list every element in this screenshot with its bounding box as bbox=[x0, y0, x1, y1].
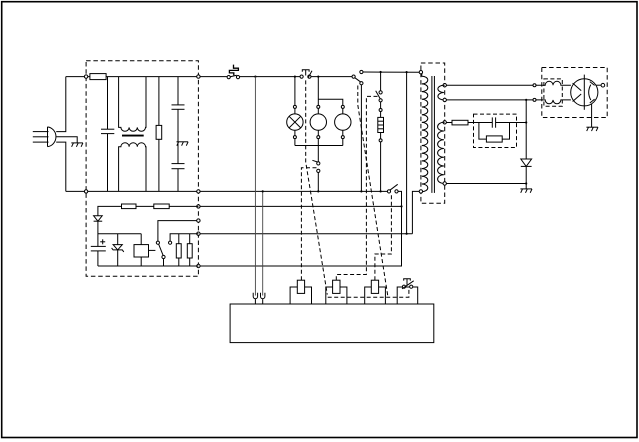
ground G1 (mains earth) bbox=[71, 143, 83, 147]
diode D1 (HV rectifier) bbox=[521, 159, 532, 189]
capacitor CX1 (X-cap) bbox=[101, 77, 114, 192]
wire: board feed B (from bottom rail) bbox=[262, 191, 264, 295]
PSU interior mid line bbox=[98, 233, 141, 235]
node: filament terminal lower bbox=[533, 98, 536, 101]
wire: plug top prong to top rail bbox=[56, 77, 66, 132]
capacitor CY1 (Y-cap upper) bbox=[172, 77, 185, 110]
inductor L2 (filament choke upper) bbox=[536, 81, 571, 85]
heater EH1 (grill element) bbox=[378, 102, 384, 191]
wire: HV return line bbox=[446, 183, 526, 185]
node: V1/B1 junction bbox=[400, 205, 402, 207]
diode D3 (zener) bbox=[112, 234, 124, 266]
inductor L3 (filament choke lower) bbox=[536, 100, 571, 104]
switch S2 (monitor switch with T actuator) bbox=[300, 70, 312, 79]
transformer T1 HV winding bbox=[438, 121, 447, 186]
wire: bottom rail (neutral) bbox=[66, 190, 389, 192]
wire: K1 NO to transformer primary (y=72 feed) bbox=[363, 71, 420, 73]
dashed link: door bar runner to S5 bbox=[328, 289, 409, 297]
wire: magnetron ground lead bbox=[591, 104, 593, 127]
wire: top rail through EMI box bbox=[106, 76, 229, 78]
resistor R2 (HV series) bbox=[446, 120, 492, 125]
wire: K1 NC branch to bottom rail bbox=[360, 85, 362, 192]
transformer T1 dashed enclosure bbox=[421, 63, 445, 203]
relay RY2 (on board) bbox=[326, 280, 347, 304]
ground G2 (Y-cap midpoint) bbox=[177, 142, 189, 146]
wire B1: bus to PSU top bbox=[198, 205, 401, 207]
PSU top feed line bbox=[98, 206, 198, 215]
wire: HV node down to diode bbox=[525, 100, 527, 159]
node: PSU edge B3 bbox=[197, 264, 200, 267]
wire: filament line upper bbox=[446, 84, 533, 86]
dashed link: RY1 to S3 bbox=[301, 168, 316, 280]
node: cap wire to HV node bbox=[525, 121, 527, 123]
node: V2/B2 junction bbox=[406, 233, 408, 235]
node: lamp tap bbox=[294, 76, 296, 78]
transformer T1 filament winding bbox=[438, 84, 446, 102]
wire B2: bus to PSU bbox=[198, 233, 412, 235]
wire V3: transformer primary bottom to bus B2 bbox=[412, 191, 419, 233]
dashed link: RY3 to relay contact K2 bbox=[375, 195, 392, 281]
choke dashed box bbox=[544, 79, 562, 106]
wire: plug earth prong bbox=[56, 137, 77, 143]
relay contact K2 (on bottom rail) bbox=[387, 184, 398, 193]
lamp E1 (oven lamp) bbox=[287, 77, 303, 146]
wire: top rail S1 to S2 bbox=[240, 76, 300, 78]
wire: filament line lower bbox=[446, 99, 533, 101]
capacitor C3 (electrolytic, +) bbox=[91, 239, 106, 266]
relay RY1 (on board) bbox=[290, 280, 311, 304]
wire: lamp/motor common bbox=[295, 145, 343, 147]
resistor R3 (bleeder, parallel with C2) bbox=[479, 123, 510, 143]
switch S3 (lamp/motor door switch) bbox=[312, 146, 320, 192]
node: feed B at bottom rail bbox=[262, 190, 264, 192]
node: heater to bottom rail bbox=[380, 190, 382, 192]
connector hook 1 bbox=[253, 293, 257, 304]
magnetron V1 bbox=[571, 75, 605, 110]
motor M2 (turntable motor) bbox=[318, 99, 351, 145]
dashed link: RY2 to heater switch S4 bbox=[336, 96, 378, 280]
node: filament terminal upper bbox=[533, 84, 536, 87]
node: motor tap bbox=[317, 76, 319, 78]
relay coil K3 bbox=[134, 234, 155, 266]
node: rail exits box bbox=[197, 75, 200, 78]
node: heater tap on feed bbox=[380, 71, 382, 73]
control board PCB bbox=[230, 304, 434, 343]
node: V2 tap on feed bbox=[406, 71, 408, 73]
resistor R5 (dropper) bbox=[154, 204, 169, 209]
node: diode/return junction bbox=[525, 182, 527, 184]
connector hook 2 bbox=[261, 293, 265, 304]
transformer T1 primary winding bbox=[419, 71, 428, 194]
node: bottom rail at box right bbox=[197, 190, 200, 193]
ground G3 (magnetron) bbox=[586, 127, 598, 131]
capacitor CY2 (Y-cap lower) bbox=[172, 109, 185, 191]
ground G4 (HV diode) bbox=[520, 189, 532, 193]
relay switch K1 (SPDT power relay) bbox=[352, 70, 363, 84]
resistor R7 bbox=[187, 234, 192, 266]
switch S5 (monitor switch on board, T actuator) bbox=[397, 279, 418, 304]
capacitor C2 (HV capacitor) bbox=[492, 117, 526, 127]
HV capacitor dashed enclosure bbox=[474, 114, 517, 147]
relay contact K3a bbox=[156, 221, 198, 266]
motor M1 (fan motor) bbox=[310, 77, 326, 146]
node: PSU edge relay common bbox=[197, 219, 200, 222]
mains plug P1 bbox=[33, 127, 56, 147]
node: bottom rail at box left bbox=[84, 190, 87, 193]
transformer T1 core bbox=[432, 76, 435, 193]
PSU bottom line bbox=[98, 265, 198, 267]
dashed link: K1 to RY3 area (diagonal) bbox=[358, 86, 388, 298]
wire V2: feed line down to bus B2 bbox=[406, 72, 408, 234]
node: NC at bottom rail bbox=[360, 190, 362, 192]
node: board feed tap bbox=[254, 76, 256, 78]
resistor R1 (in EMI filter) bbox=[156, 77, 162, 192]
node: rail enters box bbox=[84, 75, 87, 78]
node: S3 to bottom rail bbox=[317, 190, 319, 192]
EMI filter / control PSU dashed enclosure bbox=[86, 61, 198, 276]
node: HV cap junction on filament line bbox=[525, 99, 527, 101]
resistor R4 (dropper) bbox=[122, 204, 137, 209]
magnetron dashed enclosure bbox=[542, 68, 607, 118]
switch S4 (grill/heater switch) bbox=[376, 72, 383, 102]
resistor R6 bbox=[176, 234, 181, 266]
wire: plug bottom prong to bottom rail bbox=[56, 142, 66, 191]
node: PSU edge B2 bbox=[197, 232, 200, 235]
wire: top rail S2 to relay switch K1 bbox=[311, 76, 352, 78]
wire: top rail left bbox=[66, 76, 90, 78]
dashed link: S2 to RY2 (diagonal) bbox=[306, 80, 328, 294]
diode D2 (PSU rectifier) bbox=[94, 216, 103, 247]
inductor L1 (common-mode choke) bbox=[119, 77, 146, 192]
switch S1 (door interlock, top rail) bbox=[227, 65, 240, 79]
fuse F1 bbox=[90, 74, 106, 80]
wire V1: K2 to bus B1/B3 bbox=[198, 191, 401, 266]
relay RY3 (on board) bbox=[365, 280, 386, 304]
node: PSU edge B1 bbox=[197, 205, 200, 208]
wire: board feed A (from top rail) bbox=[254, 77, 256, 296]
